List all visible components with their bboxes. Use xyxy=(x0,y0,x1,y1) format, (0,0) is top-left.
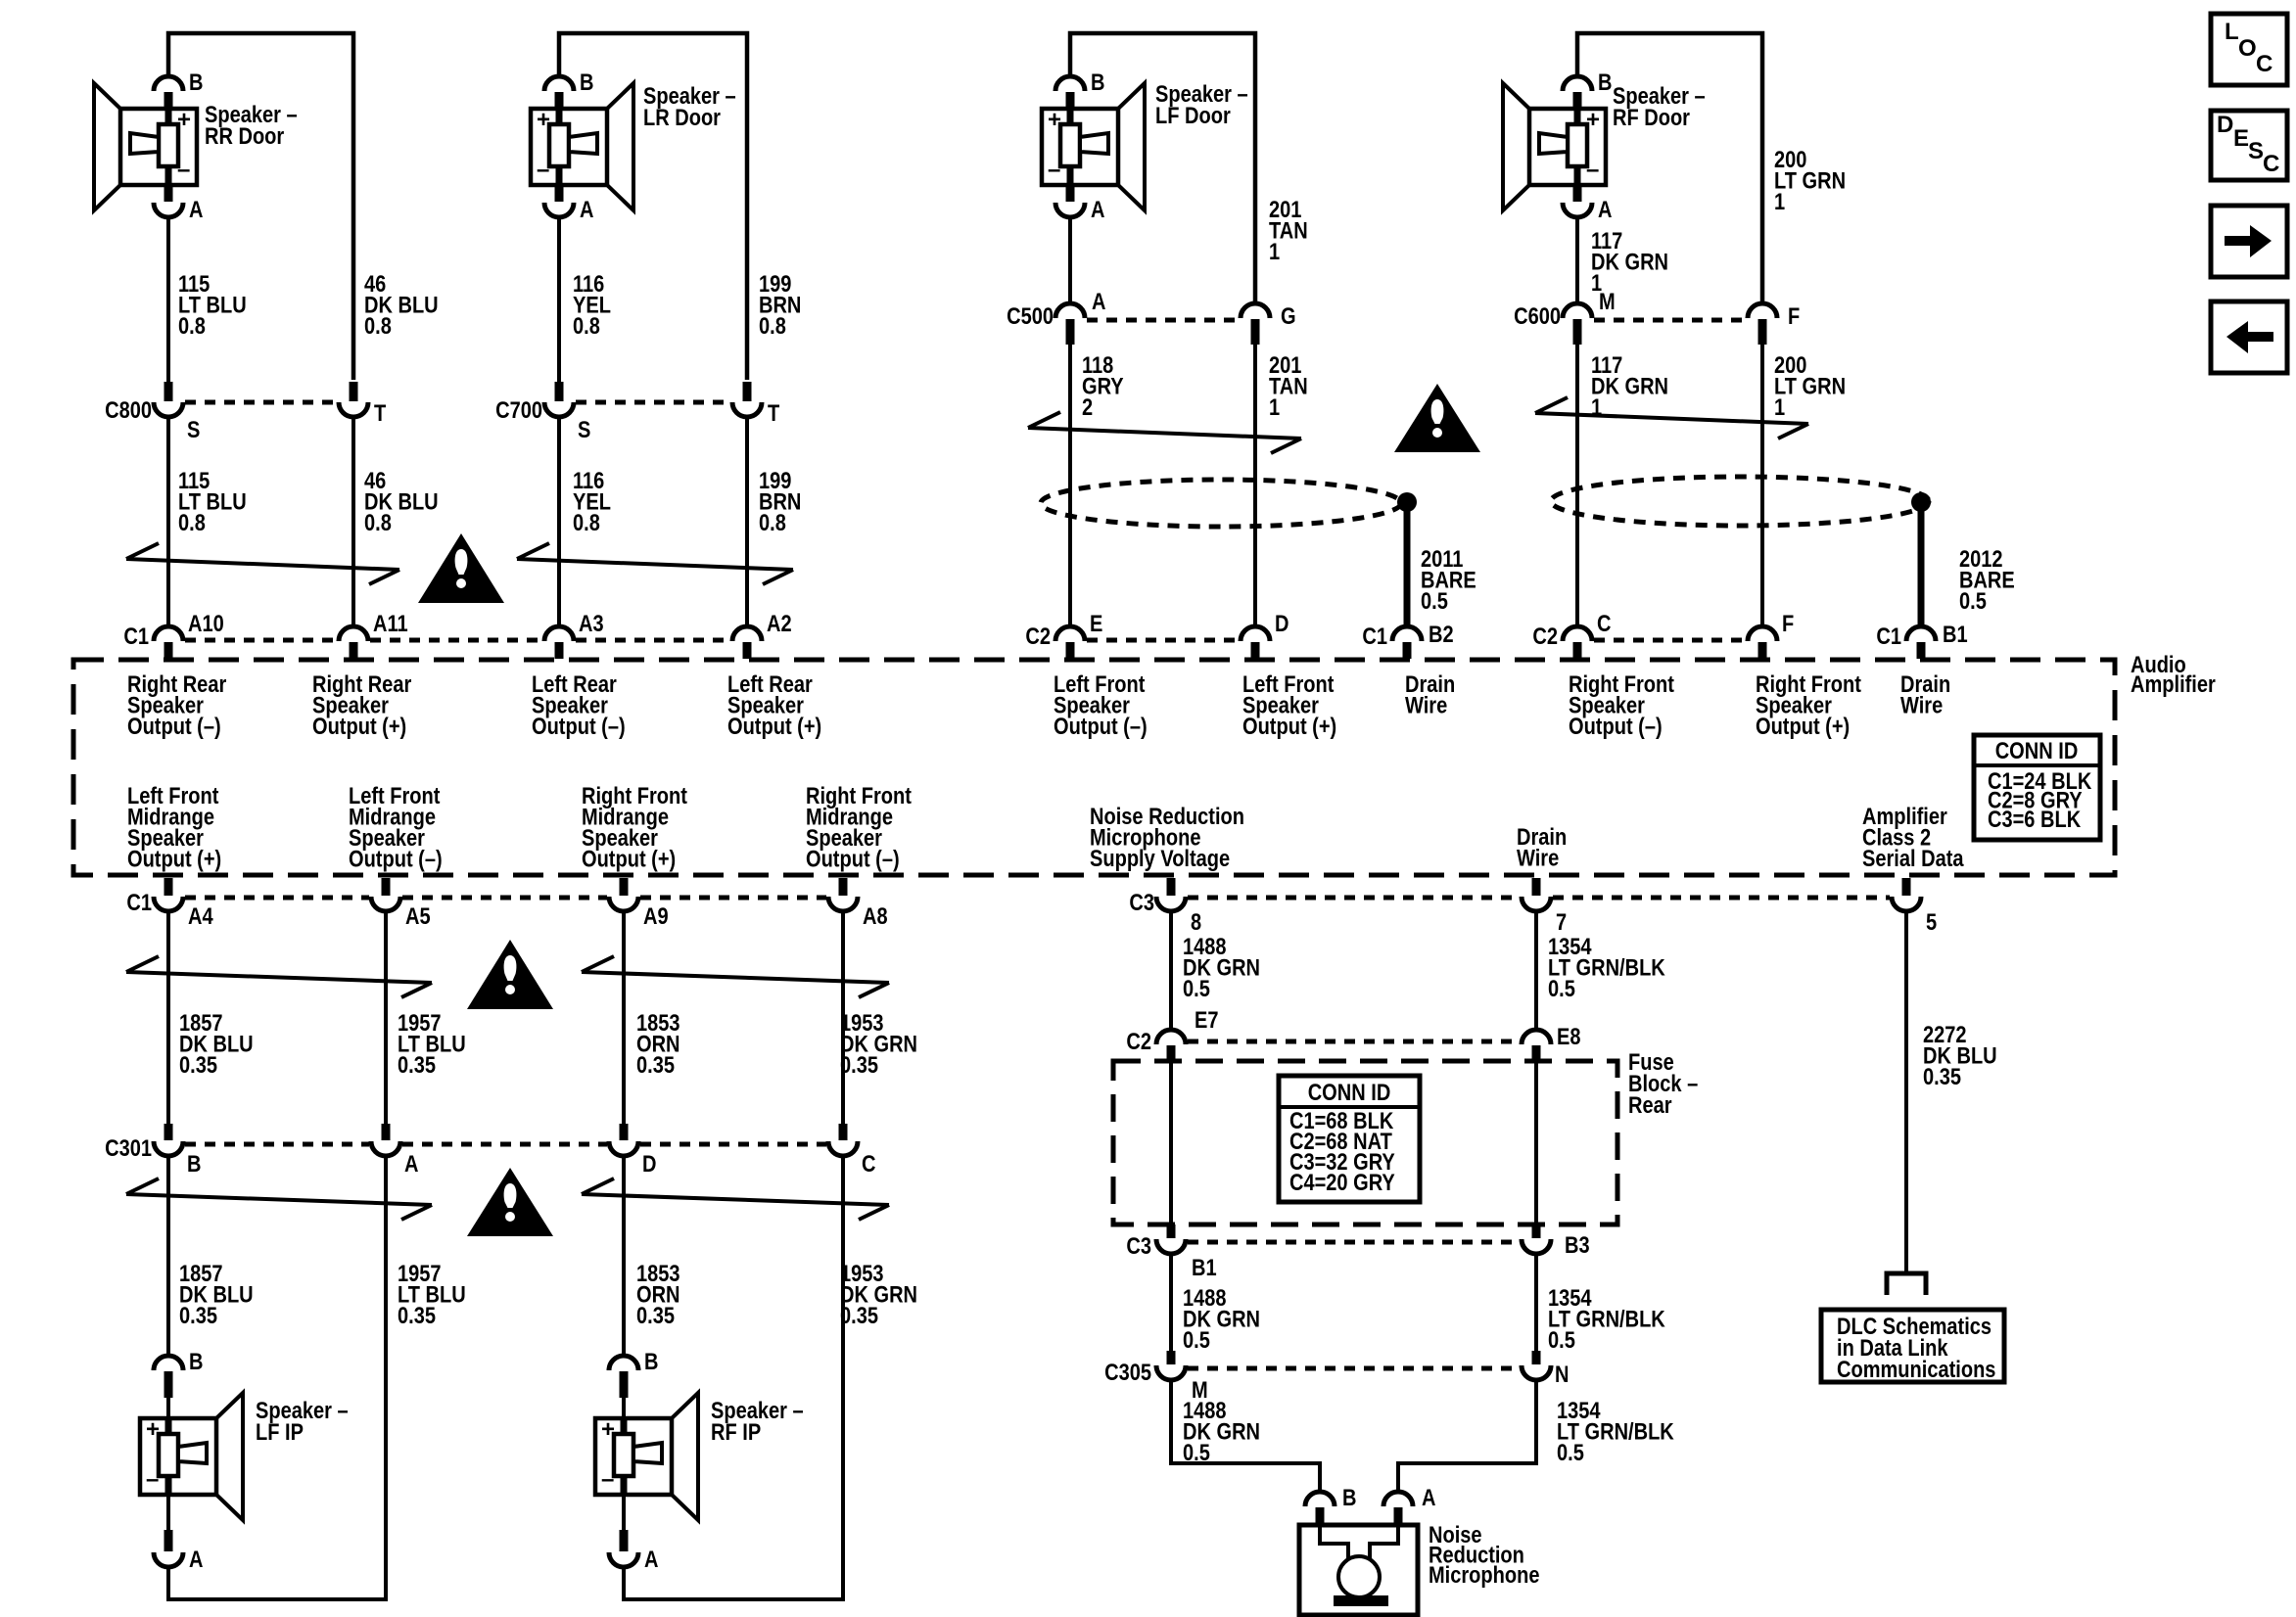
amplifier label Right Front Output (+) xyxy=(1756,670,1861,739)
svg-text:B2: B2 xyxy=(1429,621,1454,647)
wire below C700 right xyxy=(745,417,749,627)
wire label 1354 LT GRN/BLK 0.5 (bottom) xyxy=(1557,1397,1674,1465)
svg-text:Amplifier: Amplifier xyxy=(2131,670,2216,697)
wire label 199 BRN 0.8 (upper) xyxy=(759,270,801,339)
LOC icon box xyxy=(2211,14,2287,85)
wire below C600 right xyxy=(1760,343,1764,627)
svg-text:C1: C1 xyxy=(123,623,149,649)
wire below C301 x=394 xyxy=(384,1156,388,1599)
svg-text:C600: C600 xyxy=(1514,302,1561,329)
wire from amplifier to C301 x=172 xyxy=(166,911,170,1125)
pin C amplifier top row xyxy=(1532,610,1611,659)
wire label 115 LT BLU 0.8 (upper) xyxy=(178,270,247,339)
wire label 200 LT GRN 1 (upper) xyxy=(1774,146,1846,214)
svg-text:RF IP: RF IP xyxy=(711,1418,761,1445)
svg-text:B: B xyxy=(189,69,203,95)
fine dash C2 pins C-F xyxy=(1594,638,1746,643)
amplifier label Right Front Output (+) xyxy=(582,782,687,872)
amplifier label Left Rear Output (–) xyxy=(532,670,626,739)
svg-text:Output (+): Output (+) xyxy=(312,713,406,739)
svg-text:C3: C3 xyxy=(1126,1232,1151,1259)
svg-text:0.35: 0.35 xyxy=(179,1051,217,1078)
svg-text:DK GRN: DK GRN xyxy=(1591,373,1668,399)
svg-text:L: L xyxy=(2225,19,2239,45)
amplifier label Left Front Output (+) xyxy=(127,782,221,872)
svg-text:O: O xyxy=(2238,35,2257,62)
warning triangle (midrange lower) xyxy=(467,1168,553,1236)
wire LR speaker pin A to C700 xyxy=(557,217,561,383)
svg-text:1: 1 xyxy=(1774,393,1785,420)
wire speaker RF IP pin A to loop xyxy=(622,1567,626,1599)
amplifier label Right Rear Output (–) xyxy=(127,670,227,739)
wire top bus speaker circuit 2 xyxy=(559,33,747,380)
svg-text:0.8: 0.8 xyxy=(178,509,206,535)
wire speaker LF IP pin A to loop xyxy=(166,1567,170,1599)
warning triangle (rear speakers) xyxy=(418,533,504,603)
svg-text:0.8: 0.8 xyxy=(178,312,206,339)
svg-text:0.8: 0.8 xyxy=(759,312,786,339)
svg-text:Output (+): Output (+) xyxy=(1756,713,1850,739)
wire label 117 DK GRN 1 (lower) xyxy=(1591,351,1668,420)
svg-text:A5: A5 xyxy=(405,902,431,929)
svg-text:E: E xyxy=(2233,125,2249,152)
connector C305 xyxy=(1104,1351,1569,1403)
speaker LF Door xyxy=(1042,69,1248,222)
svg-text:Output (–): Output (–) xyxy=(806,846,900,872)
svg-text:C700: C700 xyxy=(495,396,542,423)
wire crossing arrow circuit 2 xyxy=(517,543,793,584)
DESC icon box xyxy=(2211,111,2287,180)
svg-text:Output (–): Output (–) xyxy=(1054,713,1148,739)
svg-text:D: D xyxy=(1275,610,1289,636)
wire below C3 left xyxy=(1169,1254,1173,1352)
svg-text:C2: C2 xyxy=(1126,1028,1151,1054)
svg-text:0.35: 0.35 xyxy=(1923,1063,1961,1089)
svg-text:T: T xyxy=(768,399,780,426)
wire label 117 DK GRN 1 (upper) xyxy=(1591,227,1668,296)
svg-text:C305: C305 xyxy=(1104,1359,1151,1385)
connector C301 xyxy=(105,1124,875,1177)
svg-text:B: B xyxy=(580,69,593,95)
drain junction dot LF xyxy=(1397,492,1417,512)
pin A9 amplifier bottom row xyxy=(609,878,669,929)
twisted pair ellipse RF xyxy=(1551,477,1929,526)
svg-text:0.35: 0.35 xyxy=(636,1302,675,1328)
svg-text:A2: A2 xyxy=(767,610,792,636)
svg-text:0.5: 0.5 xyxy=(1959,587,1987,614)
svg-text:G: G xyxy=(1281,302,1296,329)
svg-text:Wire: Wire xyxy=(1900,692,1943,718)
wire RF speaker pin A to C600 xyxy=(1575,217,1579,305)
svg-text:C2: C2 xyxy=(1025,623,1051,649)
wire pin 5 serial data xyxy=(1904,911,1908,1273)
wire label 199 BRN 0.8 (lower) xyxy=(759,467,801,535)
svg-text:RR Door: RR Door xyxy=(205,122,285,149)
svg-text:2: 2 xyxy=(1082,393,1093,420)
svg-text:0.35: 0.35 xyxy=(840,1051,878,1078)
wire below C3 right xyxy=(1534,1254,1538,1352)
svg-text:1: 1 xyxy=(1269,393,1280,420)
fine dash C2 pins E-D xyxy=(1087,638,1239,643)
speaker LR Door xyxy=(531,69,736,222)
connector C800 xyxy=(105,382,387,442)
wire through fuse block left xyxy=(1169,1061,1173,1224)
wire label 1853 ORN 0.35 (upper) xyxy=(636,1009,680,1078)
svg-text:0.35: 0.35 xyxy=(179,1302,217,1328)
label Noise Reduction Microphone xyxy=(1429,1521,1539,1588)
CONN ID table (fuse block) xyxy=(1279,1076,1420,1202)
pin A8 amplifier bottom row xyxy=(828,878,888,929)
svg-text:E: E xyxy=(1090,610,1102,636)
wire below C800 right xyxy=(351,417,355,627)
pin D amplifier top row xyxy=(1241,610,1289,659)
connector C600 xyxy=(1514,288,1800,345)
twisted pair ellipse LF xyxy=(1041,480,1401,527)
svg-text:B: B xyxy=(189,1348,203,1374)
wire top bus speaker circuit 4 xyxy=(1577,33,1762,305)
fine dash C3 pins 8-7-5 xyxy=(1188,896,1520,901)
svg-text:A: A xyxy=(644,1546,659,1572)
wire from amplifier to C301 x=861 xyxy=(841,911,845,1125)
svg-text:Output (+): Output (+) xyxy=(582,846,676,872)
wire label 1853 ORN 0.35 (lower) xyxy=(636,1260,680,1328)
label Audio Amplifier xyxy=(2131,651,2216,697)
connector C2 fuse block xyxy=(1126,1006,1580,1061)
svg-text:S: S xyxy=(187,416,200,442)
svg-text:C3=6 BLK: C3=6 BLK xyxy=(1988,806,2081,832)
svg-text:Rear: Rear xyxy=(1628,1091,1672,1118)
svg-text:RF Door: RF Door xyxy=(1613,104,1690,130)
wire below C301 x=637 xyxy=(622,1156,626,1356)
svg-text:0.5: 0.5 xyxy=(1183,975,1210,1001)
svg-text:0.5: 0.5 xyxy=(1548,1326,1575,1353)
svg-text:0.8: 0.8 xyxy=(573,509,600,535)
amplifier label Right Front Output (–) xyxy=(806,782,912,872)
warning triangle (front speakers) xyxy=(1394,384,1480,452)
connector C3 fuse block xyxy=(1126,1224,1589,1280)
svg-text:C: C xyxy=(862,1150,876,1177)
pin B1 amplifier top row xyxy=(1876,621,1967,659)
wire label 2011 BARE 0.5 xyxy=(1421,545,1476,614)
wire LF speaker pin A to C500 xyxy=(1068,217,1072,305)
speaker LF IP xyxy=(140,1348,349,1572)
svg-text:B: B xyxy=(1598,69,1612,95)
terminal bracket serial data xyxy=(1887,1273,1926,1295)
microphone pin B xyxy=(1305,1484,1356,1525)
svg-text:F: F xyxy=(1782,610,1794,636)
svg-text:D: D xyxy=(2217,112,2233,138)
svg-text:A: A xyxy=(189,196,204,222)
svg-text:A8: A8 xyxy=(863,902,888,929)
pin E amplifier top row xyxy=(1025,610,1102,659)
svg-text:LF Door: LF Door xyxy=(1155,102,1231,128)
svg-text:Output (–): Output (–) xyxy=(127,713,221,739)
wire label 200 LT GRN 1 (lower) xyxy=(1774,351,1846,420)
pin 5 amplifier bottom row xyxy=(1892,878,1937,935)
amplifier label Left Front Output (+) xyxy=(1242,670,1336,739)
svg-text:DK GRN: DK GRN xyxy=(1591,249,1668,275)
svg-text:A9: A9 xyxy=(643,902,669,929)
wire below C600 left xyxy=(1575,343,1579,627)
wire below C301 x=172 xyxy=(166,1156,170,1356)
noise reduction microphone box xyxy=(1299,1525,1418,1615)
pin A4 amplifier bottom row xyxy=(126,878,213,929)
wire pin 7 to fuse block xyxy=(1534,911,1538,1031)
wire loop RF IP xyxy=(622,1597,845,1601)
svg-text:5: 5 xyxy=(1926,908,1937,935)
wire below C700 left xyxy=(557,417,561,627)
svg-text:Output (–): Output (–) xyxy=(1569,713,1663,739)
svg-text:B: B xyxy=(1091,69,1104,95)
wire label 1957 LT BLU 0.35 (lower) xyxy=(398,1260,466,1328)
svg-text:B3: B3 xyxy=(1565,1231,1590,1258)
wire label 46 DK BLU 0.8 (lower) xyxy=(364,467,439,535)
wire from amplifier to C301 x=637 xyxy=(622,911,626,1125)
wire loop LF IP xyxy=(166,1597,388,1601)
svg-text:B: B xyxy=(187,1150,201,1177)
svg-text:A: A xyxy=(1092,288,1106,314)
svg-text:0.35: 0.35 xyxy=(840,1302,878,1328)
wire crossing arrow midrange left pair xyxy=(126,956,432,997)
amplifier label Drain Wire xyxy=(1517,823,1567,871)
svg-text:C: C xyxy=(2263,151,2279,177)
svg-text:F: F xyxy=(1788,302,1800,329)
svg-text:B: B xyxy=(644,1348,658,1374)
svg-text:C: C xyxy=(2256,51,2273,77)
wire label 1488 DK GRN 0.5 (bottom) xyxy=(1183,1397,1260,1465)
wire below C500 left xyxy=(1068,343,1072,627)
svg-text:Communications: Communications xyxy=(1837,1356,1995,1382)
svg-text:Output (–): Output (–) xyxy=(349,846,443,872)
svg-text:0.35: 0.35 xyxy=(636,1051,675,1078)
pin A2 amplifier top row xyxy=(732,610,792,659)
pin F amplifier top row xyxy=(1748,610,1794,659)
drain wire 2011 BARE xyxy=(1404,502,1411,628)
amplifier label Left Front Output (–) xyxy=(349,782,443,872)
svg-text:C800: C800 xyxy=(105,396,152,423)
speaker RR Door xyxy=(94,69,298,222)
svg-text:D: D xyxy=(642,1150,657,1177)
svg-text:C4=20 GRY: C4=20 GRY xyxy=(1289,1169,1395,1195)
wire below C500 right xyxy=(1253,343,1257,627)
svg-text:LR Door: LR Door xyxy=(643,104,721,130)
svg-text:0.5: 0.5 xyxy=(1421,587,1448,614)
pin 7 amplifier bottom row xyxy=(1522,878,1567,935)
warning triangle (midrange upper) xyxy=(467,940,553,1009)
audio amplifier dashed box xyxy=(73,660,2115,875)
wire label 201 TAN 1 (lower) xyxy=(1269,351,1308,420)
wire label 1957 LT BLU 0.35 (upper) xyxy=(398,1009,466,1078)
svg-text:CONN ID: CONN ID xyxy=(1995,737,2079,763)
svg-text:A: A xyxy=(1598,196,1613,222)
wire label 1354 LT GRN/BLK 0.5 (mid) xyxy=(1548,1284,1665,1353)
wire crossing arrow below C301 left xyxy=(126,1178,432,1220)
amplifier label Left Rear Output (+) xyxy=(727,670,821,739)
wire from amplifier to C301 x=394 xyxy=(384,911,388,1125)
svg-text:0.8: 0.8 xyxy=(364,312,392,339)
CONN ID table (amplifier) xyxy=(1974,735,2100,840)
svg-text:C2: C2 xyxy=(1532,623,1558,649)
svg-text:0.35: 0.35 xyxy=(398,1302,436,1328)
drain wire 2012 BARE xyxy=(1918,502,1925,628)
svg-text:Wire: Wire xyxy=(1405,692,1447,718)
svg-text:CONN ID: CONN ID xyxy=(1308,1079,1391,1105)
svg-text:C: C xyxy=(1597,610,1612,636)
svg-text:S: S xyxy=(578,416,590,442)
svg-text:A: A xyxy=(189,1546,204,1572)
svg-text:Output (+): Output (+) xyxy=(727,713,821,739)
svg-text:Serial Data: Serial Data xyxy=(1862,845,1964,871)
wire top bus speaker circuit 3 xyxy=(1070,33,1255,305)
svg-text:B: B xyxy=(1342,1484,1356,1510)
wire label 1953 DK GRN 0.35 (upper) xyxy=(840,1009,917,1078)
wire top bus speaker circuit 1 xyxy=(168,33,353,380)
left arrow icon box xyxy=(2211,301,2287,373)
fuse block dashed box xyxy=(1113,1061,1617,1224)
label Fuse Block - Rear xyxy=(1628,1048,1698,1118)
fine dash C1 pins A10-A2 xyxy=(185,638,337,643)
svg-text:0.5: 0.5 xyxy=(1557,1439,1584,1465)
wire label 1488 DK GRN 0.5 (mid) xyxy=(1183,1284,1260,1353)
svg-text:A4: A4 xyxy=(188,902,213,929)
amplifier label Drain Wire xyxy=(1405,670,1455,718)
right arrow icon box xyxy=(2211,206,2287,277)
DLC schematics box xyxy=(1821,1310,2004,1382)
wire label 2272 DK BLU 0.35 xyxy=(1923,1021,1997,1089)
amplifier label Drain Wire xyxy=(1900,670,1950,718)
svg-text:A10: A10 xyxy=(188,610,224,636)
pin A3 amplifier top row xyxy=(544,610,604,659)
svg-text:0.5: 0.5 xyxy=(1183,1326,1210,1353)
speaker RF Door xyxy=(1503,69,1706,222)
wire label 116 YEL 0.8 (lower) xyxy=(573,467,611,535)
wire below C301 x=861 xyxy=(841,1156,845,1599)
wire C305-N to microphone A xyxy=(1398,1380,1536,1492)
wire label 116 YEL 0.8 (upper) xyxy=(573,270,611,339)
wire pin 8 to C2 xyxy=(1169,911,1173,1031)
pin A5 amplifier bottom row xyxy=(371,878,431,929)
pin A11 amplifier top row xyxy=(339,610,408,659)
connector C700 xyxy=(495,382,780,442)
svg-text:1: 1 xyxy=(1269,238,1280,264)
drain junction dot RF xyxy=(1911,492,1931,512)
wire through fuse block right xyxy=(1534,1061,1538,1224)
amplifier label Amplifier Serial Data xyxy=(1862,803,1964,871)
wire label 2012 BARE 0.5 xyxy=(1959,545,2015,614)
svg-text:0.5: 0.5 xyxy=(1548,975,1575,1001)
amplifier label Noise Reduction Supply Voltage xyxy=(1090,803,1244,871)
wire label 1857 DK BLU 0.35 (upper) xyxy=(179,1009,254,1078)
wire label 201 TAN 1 (upper) xyxy=(1269,196,1308,264)
wire crossing arrow below C301 right xyxy=(582,1178,889,1220)
svg-text:Output (+): Output (+) xyxy=(1242,713,1336,739)
svg-text:S: S xyxy=(2248,138,2264,164)
svg-text:C500: C500 xyxy=(1007,302,1054,329)
svg-text:Output (+): Output (+) xyxy=(127,846,221,872)
amplifier label Left Front Output (–) xyxy=(1054,670,1148,739)
svg-text:7: 7 xyxy=(1556,908,1567,935)
fine dash C1 pins A4-A8 xyxy=(185,896,369,901)
connector C500 xyxy=(1007,288,1295,345)
svg-text:A3: A3 xyxy=(579,610,604,636)
amplifier label Right Rear Output (+) xyxy=(312,670,412,739)
svg-text:T: T xyxy=(374,399,387,426)
svg-text:A: A xyxy=(580,196,594,222)
svg-text:C1: C1 xyxy=(126,889,152,915)
svg-text:C1: C1 xyxy=(1876,623,1901,649)
amplifier label Right Front Output (–) xyxy=(1569,670,1674,739)
svg-text:0.8: 0.8 xyxy=(759,509,786,535)
svg-text:8: 8 xyxy=(1191,908,1201,935)
svg-text:N: N xyxy=(1555,1361,1569,1387)
pin A10 amplifier top row xyxy=(123,610,223,659)
wire crossing arrow circuit 4 xyxy=(1535,397,1808,439)
svg-text:A: A xyxy=(1091,196,1105,222)
wire label 118 GRY 2 xyxy=(1082,351,1124,420)
wire RR speaker pin A to C800 xyxy=(166,217,170,383)
microphone pin A xyxy=(1383,1484,1436,1525)
svg-text:C1: C1 xyxy=(1362,623,1387,649)
svg-text:A11: A11 xyxy=(373,610,408,636)
wire label 1354 LT GRN/BLK 0.5 (top) xyxy=(1548,933,1665,1001)
wire label 115 LT BLU 0.8 (lower) xyxy=(178,467,247,535)
wire C305-M to microphone B xyxy=(1171,1380,1320,1492)
wire below C800 left xyxy=(166,417,170,627)
svg-text:B1: B1 xyxy=(1192,1254,1217,1280)
svg-text:M: M xyxy=(1599,288,1616,314)
svg-text:Supply Voltage: Supply Voltage xyxy=(1090,845,1230,871)
svg-text:0.8: 0.8 xyxy=(573,312,600,339)
svg-text:Output (–): Output (–) xyxy=(532,713,626,739)
wire label 1488 DK GRN 0.5 (top) xyxy=(1183,933,1260,1001)
wire label 46 DK BLU 0.8 (upper) xyxy=(364,270,439,339)
wire crossing arrow circuit 3 xyxy=(1028,412,1301,453)
svg-text:B1: B1 xyxy=(1943,621,1968,647)
svg-text:C3: C3 xyxy=(1129,889,1154,915)
wire crossing arrow midrange right pair xyxy=(582,956,889,997)
svg-text:0.8: 0.8 xyxy=(364,509,392,535)
svg-text:E8: E8 xyxy=(1557,1023,1581,1049)
svg-text:A: A xyxy=(404,1150,419,1177)
wire label 1953 DK GRN 0.35 (lower) xyxy=(840,1260,917,1328)
svg-text:1: 1 xyxy=(1774,188,1785,214)
svg-text:A: A xyxy=(1422,1484,1436,1510)
svg-text:Microphone: Microphone xyxy=(1429,1561,1539,1588)
svg-text:0.35: 0.35 xyxy=(398,1051,436,1078)
wire label 1857 DK BLU 0.35 (lower) xyxy=(179,1260,254,1328)
svg-text:C301: C301 xyxy=(105,1134,152,1161)
svg-text:E7: E7 xyxy=(1195,1006,1219,1033)
pin 8 amplifier bottom row xyxy=(1129,878,1201,935)
pin B2 amplifier top row xyxy=(1362,621,1453,659)
svg-text:Wire: Wire xyxy=(1517,845,1559,871)
svg-text:LF IP: LF IP xyxy=(256,1418,304,1445)
speaker RF IP xyxy=(595,1348,804,1572)
wire crossing arrow circuit 1 xyxy=(126,543,399,584)
